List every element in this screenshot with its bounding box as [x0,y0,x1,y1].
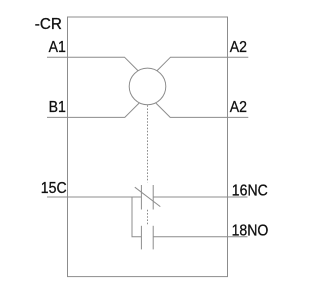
wire A2 bottom [156,103,249,117]
svg-text:18NO: 18NO [232,222,269,240]
label 18NO [232,222,269,240]
wire B1 [47,103,139,117]
svg-text:A1: A1 [49,38,66,56]
wire 18NO [153,236,247,238]
relay enclosure border [68,17,228,277]
label 15C [41,179,67,197]
label B1 [49,98,66,116]
contact NC left bar [140,185,142,210]
mechanical link dashed line lower [147,210,149,225]
wire A1 [47,57,138,70]
svg-text:-CR: -CR [35,16,62,33]
branch wire down [132,197,141,237]
contact NC slash [135,187,161,206]
label 16NC [232,182,268,200]
label A2 bottom [230,98,247,116]
mechanical link dashed line upper [147,105,149,182]
contact NO left bar [140,226,142,250]
svg-text:B1: B1 [49,98,66,116]
contact NC right bar [152,185,154,210]
wire 16NC [153,196,247,198]
svg-text:A2: A2 [230,38,247,56]
svg-text:15C: 15C [41,179,67,197]
svg-text:A2: A2 [230,98,247,116]
contact NO right bar [152,226,154,250]
wire 15C [47,196,141,198]
coil K1 circle [129,68,166,105]
wire A2 top [157,57,248,70]
label -CR [35,16,62,33]
label A2 top [230,38,247,56]
svg-text:16NC: 16NC [232,182,268,200]
label A1 [49,38,66,56]
